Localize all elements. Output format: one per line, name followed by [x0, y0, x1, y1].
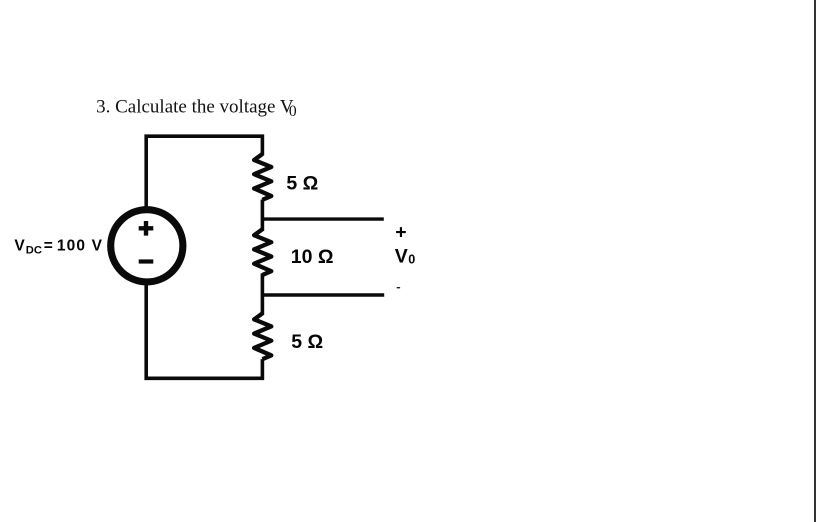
label output minus	[397, 287, 400, 288]
voltage source minus sign	[139, 259, 154, 263]
wire bottom (source negative to R3 bottom node)	[146, 281, 262, 378]
resistor R3 5 ohm zigzag	[254, 313, 271, 359]
svg-text:3. Calculate the voltage V: 3. Calculate the voltage V	[96, 96, 294, 117]
wire between R1 and R2	[261, 200, 265, 231]
svg-text:V: V	[395, 246, 408, 268]
svg-text:0: 0	[289, 103, 297, 120]
resistor R2 10 ohm zigzag	[254, 229, 271, 275]
wire left and top (source to R1 top node)	[146, 136, 262, 210]
svg-text:10 Ω: 10 Ω	[291, 246, 334, 268]
voltage source VDC circle	[111, 210, 183, 282]
svg-text:5 Ω: 5 Ω	[291, 331, 323, 353]
svg-text:=: =	[44, 237, 53, 254]
svg-text:100 V: 100 V	[57, 237, 103, 254]
page edge border right	[814, 0, 816, 522]
voltage source plus sign	[139, 221, 154, 236]
svg-text:DC: DC	[26, 245, 42, 257]
wire tap node B (Vo minus)	[262, 293, 384, 296]
wire tap node A (Vo plus)	[262, 217, 383, 220]
resistor R1 5 ohm zigzag	[254, 154, 271, 200]
svg-text:+: +	[395, 221, 406, 243]
svg-text:5 Ω: 5 Ω	[286, 173, 318, 195]
svg-text:V: V	[14, 237, 25, 254]
wire between R2 and R3	[261, 274, 265, 316]
svg-text:0: 0	[408, 253, 415, 267]
